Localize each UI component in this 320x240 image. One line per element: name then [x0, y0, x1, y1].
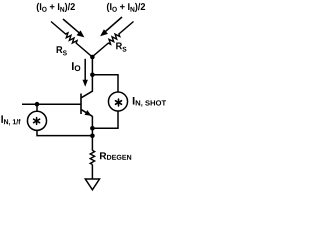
IO current arrow [83, 59, 88, 87]
wire RDEGEN to ground [91, 165, 93, 179]
label RS right [116, 43, 126, 52]
junction dot collector branch [90, 73, 95, 78]
wire node to collector junction [91, 57, 93, 75]
current source IN,SHOT circle [108, 92, 127, 111]
label IO [72, 62, 80, 71]
current source IN,1/f circle [27, 111, 46, 130]
wire emitter down to node [91, 116, 93, 136]
base wire [22, 103, 81, 105]
resistor RS left [49, 20, 94, 59]
asterisk in IN,SHOT [116, 99, 122, 106]
transistor Q1 collector [81, 75, 92, 98]
wire 1/f source return to emitter node [37, 130, 92, 135]
wire node to RDEGEN [91, 136, 93, 151]
wire shot source return to emitter node [92, 111, 118, 128]
junction dot on base wire [35, 102, 40, 107]
label RS left [57, 46, 67, 55]
wire junction to shot-noise source [92, 75, 118, 92]
node A top junction dot [90, 55, 95, 60]
label RDEGEN [100, 152, 131, 159]
label IN,SHOT [133, 97, 166, 107]
label: right top current (IO+IN)/2 [107, 3, 145, 12]
junction dot shot return [90, 126, 95, 131]
label: left top current (IO+IN)/2 [37, 3, 75, 12]
label IN,1/f [1, 115, 20, 125]
asterisk in IN,1/f [34, 118, 40, 125]
ground symbol [85, 179, 99, 190]
current arrow right into node [100, 17, 122, 36]
current source IN,1/f top lead [36, 104, 38, 111]
transistor Q1 emitter with arrowhead [81, 110, 92, 117]
resistor RDEGEN [90, 150, 94, 164]
current arrow left into node [63, 19, 84, 37]
junction dot 1/f return [90, 134, 95, 139]
resistor RS right [91, 20, 135, 59]
transistor Q1 base bar [80, 94, 82, 115]
